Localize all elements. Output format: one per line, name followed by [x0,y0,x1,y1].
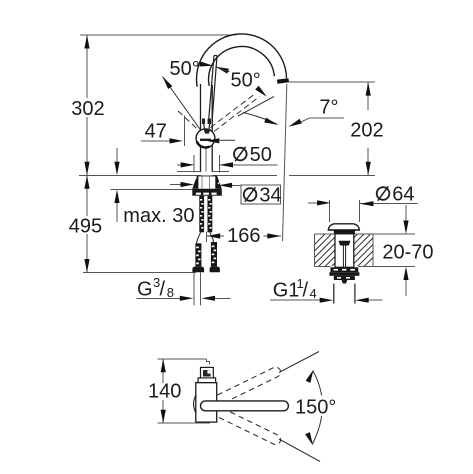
svg-text:150°: 150° [295,397,336,419]
svg-text:64: 64 [392,184,414,206]
svg-text:/: / [160,279,166,301]
svg-text:202: 202 [350,120,383,142]
svg-text:G1: G1 [273,280,300,302]
svg-text:50°: 50° [170,58,200,80]
svg-text:8: 8 [167,285,174,300]
svg-text:G: G [137,279,153,301]
svg-text:7°: 7° [319,97,338,119]
svg-text:50°: 50° [231,70,261,92]
svg-text:140: 140 [148,381,181,403]
svg-text:/: / [303,280,309,302]
svg-text:50: 50 [250,144,272,166]
svg-text:20-70: 20-70 [382,242,433,264]
svg-text:302: 302 [71,98,104,120]
svg-text:max. 30: max. 30 [123,205,194,227]
svg-text:4: 4 [310,286,317,301]
svg-text:166: 166 [227,225,260,247]
svg-text:495: 495 [69,216,102,238]
svg-text:47: 47 [145,121,167,143]
svg-text:34: 34 [259,185,281,207]
